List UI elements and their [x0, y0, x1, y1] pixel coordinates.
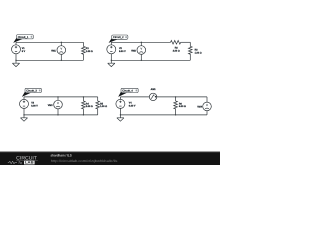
svg-text:9.00 V: 9.00 V [119, 50, 126, 53]
wire top net circuit 3 [24, 96, 98, 98]
resistor R4 [82, 97, 86, 115]
node junction VM1 bottom [61, 60, 62, 61]
svg-text:VM1: VM1 [51, 49, 56, 52]
svg-text:VM3: VM3 [48, 104, 53, 107]
resistor R3 [189, 42, 193, 60]
svg-text:Circuit_1: Circuit_1 [18, 36, 29, 39]
voltmeter VM2 [137, 42, 146, 60]
svg-text:1.00 Ω: 1.00 Ω [100, 105, 107, 108]
svg-text:VM4: VM4 [197, 106, 202, 109]
ammeter AM1 [149, 93, 156, 100]
svg-text:9.00 V: 9.00 V [31, 105, 38, 108]
node junction VM3 bottom [57, 114, 58, 115]
node junction V2 bottom [111, 60, 112, 61]
svg-text:2.00 Ω: 2.00 Ω [86, 105, 93, 108]
node junction V1 bottom [15, 60, 16, 61]
footer bar [0, 152, 220, 165]
wire bottom net circuit 2 [111, 59, 190, 61]
node junction VM2 top [141, 42, 142, 43]
svg-text:9 V: 9 V [22, 50, 26, 53]
node junction VM3 top [57, 96, 58, 97]
svg-text:Circuit_4: Circuit_4 [122, 90, 133, 93]
wire top net circuit 2 right [181, 41, 191, 43]
svg-text:Circuit_2: Circuit_2 [113, 36, 124, 39]
node junction R4 bottom [83, 114, 84, 115]
wire bottom net circuit 1 [16, 59, 83, 61]
resistor R1 [82, 42, 86, 60]
node junction R4 top [83, 96, 84, 97]
svg-text:1.00 Ω: 1.00 Ω [86, 50, 93, 53]
wire top net circuit 1 [16, 41, 83, 43]
wire bottom net circuit 4 [120, 114, 207, 116]
node junction R6 top [175, 96, 176, 97]
svg-text:6.00 Ω: 6.00 Ω [179, 105, 186, 108]
svg-text:AM1: AM1 [151, 88, 157, 91]
svg-text:http://circuitlab.com/c6njbwhk: http://circuitlab.com/c6njbwhkba9r/ils [51, 159, 118, 163]
node junction V4 bottom [120, 114, 121, 115]
net flag Circuit_2 [109, 35, 128, 43]
svg-text:2.00 Ω: 2.00 Ω [173, 49, 180, 52]
ground GND3 [20, 118, 27, 121]
voltmeter VM3 [54, 97, 63, 115]
voltmeter VM1 [57, 42, 66, 60]
svg-text:shardham / ILS: shardham / ILS [51, 154, 73, 158]
ground GND1 [12, 63, 19, 66]
wire bottom net circuit 3 [24, 114, 98, 116]
node junction R6 bottom [175, 114, 176, 115]
logo CircuitLab [8, 156, 38, 165]
resistor R2 [171, 41, 181, 45]
ground GND4 [117, 118, 124, 121]
svg-text:LAB: LAB [25, 161, 34, 165]
net flag Circuit_4 [118, 88, 138, 97]
wire top net circuit 2 left [111, 41, 170, 43]
wire top net circuit 4 right [157, 96, 207, 98]
voltage source V3 [20, 97, 29, 118]
node junction VM2 bottom [141, 60, 142, 61]
node junction V3 bottom [23, 114, 24, 115]
net flag Circuit_1 [13, 35, 33, 43]
voltage source V4 [116, 97, 125, 118]
ground GND2 [108, 63, 115, 66]
resistor R5 [96, 97, 100, 115]
node junction VM1 top [61, 42, 62, 43]
voltmeter VM4 [203, 97, 212, 115]
wire corner circuit 2 [189, 41, 191, 43]
resistor R6 [174, 97, 178, 115]
svg-text:1.00 Ω: 1.00 Ω [195, 51, 202, 54]
wire top net circuit 4 left [120, 96, 149, 98]
net flag Circuit_3 [22, 88, 42, 97]
svg-text:VM2: VM2 [131, 49, 136, 52]
voltage source V1 [12, 42, 21, 63]
svg-text:Circuit_3: Circuit_3 [26, 90, 37, 93]
voltage source V2 [107, 42, 116, 63]
svg-text:9.00 V: 9.00 V [129, 105, 136, 108]
